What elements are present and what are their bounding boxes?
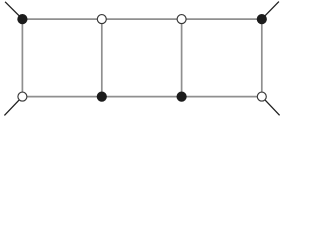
- wire diagonal bottom-left lead: [4, 97, 22, 116]
- wire diagonal top-left lead: [5, 2, 22, 19]
- wire bottom rail: [22, 96, 261, 98]
- node bottom-2 filled: [97, 92, 107, 102]
- wire vertical rung 3: [181, 19, 183, 97]
- wire diagonal bottom-right lead: [262, 97, 280, 116]
- node bottom-4 open: [257, 92, 266, 101]
- wire top rail: [22, 18, 261, 20]
- node bottom-1 open: [18, 92, 27, 101]
- node top-1 filled: [17, 14, 27, 24]
- wire vertical rung 4: [261, 19, 263, 97]
- node top-3 open: [177, 15, 186, 24]
- node top-2 open: [97, 15, 106, 24]
- wire vertical rung 1: [21, 19, 23, 97]
- wire vertical rung 2: [101, 19, 103, 97]
- node bottom-3 filled: [177, 92, 187, 102]
- node top-4 filled: [257, 14, 267, 24]
- wire diagonal top-right lead: [262, 2, 279, 20]
